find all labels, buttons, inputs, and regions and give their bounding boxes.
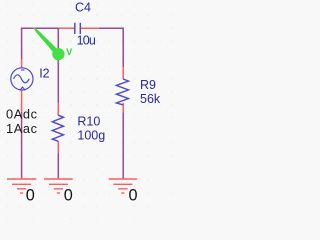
svg-text:56k: 56k: [140, 92, 161, 106]
svg-text:I2: I2: [39, 66, 49, 80]
R9 zigzag body: [116, 79, 128, 105]
svg-text:C4: C4: [75, 1, 91, 15]
wire: R9 bottom pin down to ground: [122, 113, 124, 179]
wire: R10 bottom pin down to ground: [57, 154, 59, 179]
I2 top dash: [21, 69, 24, 71]
svg-text:V: V: [66, 47, 73, 57]
C4 left plate: [74, 23, 76, 34]
I2 body circle: [11, 68, 33, 90]
resistor R10: [52, 103, 63, 154]
pin: C4 left pin: [59, 27, 74, 29]
pin: R9 bottom pin: [122, 103, 124, 113]
pin: I2 bottom pin: [21, 90, 23, 112]
pin: C4 right pin: [81, 27, 99, 29]
ground 0 (under I2): [7, 179, 36, 204]
R10 zigzag body: [52, 115, 63, 141]
svg-text:0Adc: 0Adc: [6, 106, 38, 121]
svg-text:0: 0: [26, 186, 35, 204]
wire: net from C4 right pin right and down to R9 top pin (node C corner): [99, 28, 124, 67]
ground 0 (under R9): [109, 179, 138, 204]
wire: I2 bottom pin down to ground: [21, 112, 23, 179]
pin: R9 top pin: [122, 67, 124, 79]
resistor R9: [116, 67, 128, 112]
wire: net from I2 top pin up and right to probe junction node B: [22, 28, 59, 59]
wire: vertical segment from junction B down to R10 top pin: [57, 28, 59, 102]
svg-text:10u: 10u: [77, 33, 96, 47]
svg-text:0: 0: [129, 186, 138, 204]
C4 right plate: [79, 23, 81, 34]
svg-text:0: 0: [64, 186, 73, 204]
svg-text:R9: R9: [140, 78, 156, 92]
pin: I2 top pin: [21, 60, 23, 68]
pin: R10 top pin: [57, 103, 59, 116]
ground 0 (under R10): [44, 179, 73, 204]
probe shaft: [33, 27, 60, 56]
voltage marker probe V: [33, 27, 73, 60]
pin: R10 bottom pin: [57, 141, 59, 154]
probe bulb: [52, 48, 64, 60]
svg-text:1Aac: 1Aac: [6, 121, 38, 136]
current source I2: [11, 60, 33, 112]
capacitor C4: [59, 23, 99, 34]
I2 bottom arrowhead: [20, 87, 25, 90]
svg-text:100g: 100g: [77, 129, 105, 143]
I2 sine wave: [14, 75, 30, 83]
svg-text:R10: R10: [77, 115, 100, 129]
